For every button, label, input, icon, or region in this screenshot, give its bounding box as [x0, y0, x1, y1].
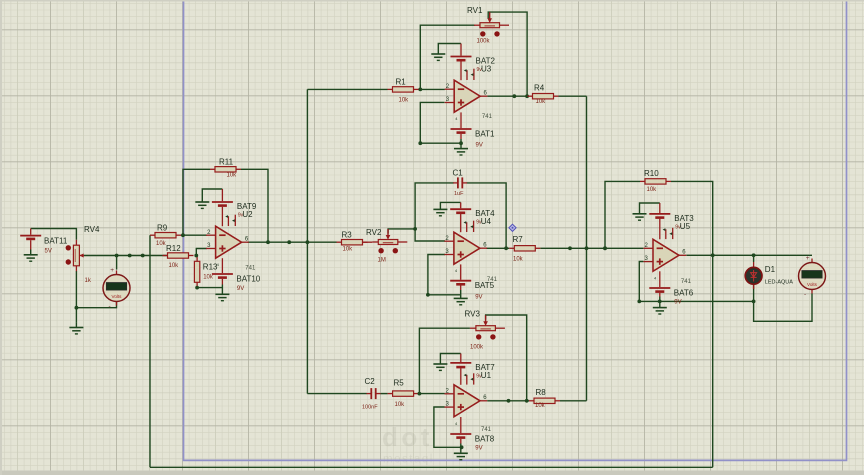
svg-text:10k: 10k: [227, 173, 238, 179]
capacitor C1: [453, 169, 468, 197]
svg-text:U1: U1: [481, 371, 492, 380]
ground: [433, 209, 447, 215]
svg-text:R11: R11: [219, 158, 234, 167]
resistor R3: [337, 230, 368, 252]
svg-text:U5: U5: [680, 222, 691, 231]
RV3 buttons: [476, 334, 481, 339]
svg-text:9V: 9V: [476, 143, 483, 149]
wire: [183, 169, 210, 235]
battery BAT2: [451, 57, 472, 61]
wire: [754, 284, 812, 321]
wire: [488, 12, 527, 96]
ground BAT1: [454, 149, 468, 155]
battery BAT4 wiring: [460, 202, 462, 208]
svg-text:mostaql: mostaql: [383, 454, 434, 466]
ground U5 top: [640, 203, 660, 214]
junction: [413, 227, 417, 231]
wire: [388, 229, 415, 234]
battery BAT8 wiring: [460, 417, 462, 433]
battery BAT2 wiring: [460, 44, 462, 56]
wire: [221, 285, 223, 295]
wire: [434, 407, 461, 447]
svg-text:C2: C2: [365, 377, 376, 386]
svg-text:10k: 10k: [513, 257, 524, 263]
junction: [752, 300, 756, 304]
svg-text:U4: U4: [481, 217, 492, 226]
battery BAT1 wiring: [460, 112, 462, 128]
svg-text:Volts: Volts: [807, 282, 818, 287]
svg-text:10k: 10k: [169, 263, 180, 269]
wire: [586, 96, 588, 401]
wire: [150, 466, 713, 468]
wire: [420, 25, 475, 89]
svg-text:10k: 10k: [203, 275, 214, 281]
junction: [194, 254, 198, 258]
junction: [115, 254, 119, 258]
wire: [197, 287, 222, 289]
svg-text:D1: D1: [765, 265, 776, 274]
battery BAT10: [212, 274, 233, 278]
wire: [487, 95, 527, 97]
battery BAT4: [450, 209, 471, 213]
svg-text:10k: 10k: [395, 402, 406, 408]
junction: [306, 240, 310, 244]
svg-text:100k: 100k: [477, 39, 491, 45]
junction: [512, 94, 516, 98]
battery BAT7 wiring: [460, 354, 462, 363]
ground U3 top: [438, 44, 461, 55]
wire: [540, 247, 643, 249]
svg-text:BAT6: BAT6: [674, 289, 694, 298]
svg-text:RV3: RV3: [465, 310, 481, 319]
ground U2 top: [202, 189, 222, 202]
svg-text:1uF: 1uF: [454, 191, 464, 197]
svg-text:U2: U2: [242, 210, 253, 219]
potentiometer RV3: [465, 310, 505, 351]
wire: [420, 102, 461, 143]
junction: [637, 300, 641, 304]
svg-text:10k: 10k: [647, 187, 658, 193]
resistor R1: [388, 78, 419, 104]
svg-text:R1: R1: [396, 78, 407, 87]
wire: [248, 241, 337, 243]
junction: [418, 88, 422, 92]
wire: [753, 255, 755, 262]
voltmeter left Volts: [103, 267, 130, 310]
wire: [639, 262, 643, 302]
wire: [241, 169, 268, 242]
svg-text:R9: R9: [157, 224, 168, 233]
junction: [603, 246, 607, 250]
wire: [460, 290, 462, 298]
svg-text:9V: 9V: [237, 286, 244, 292]
svg-text:9V: 9V: [475, 446, 482, 452]
capacitor C2: [362, 377, 381, 410]
potentiometer RV2: [366, 228, 407, 264]
svg-text:100nF: 100nF: [362, 405, 378, 411]
svg-text:R4: R4: [534, 83, 545, 92]
battery BAT11: [20, 229, 68, 255]
wire: [686, 254, 812, 256]
wire: [460, 447, 462, 453]
svg-text:741: 741: [482, 114, 493, 120]
svg-text:10k: 10k: [536, 99, 547, 105]
wire: [381, 393, 388, 395]
svg-text:9V: 9V: [674, 300, 681, 306]
svg-text:LED-AQUA: LED-AQUA: [765, 280, 793, 286]
junction: [658, 300, 662, 304]
svg-text:RV1: RV1: [467, 6, 483, 15]
ground: [431, 54, 445, 60]
junction: [711, 253, 715, 257]
RV4 buttons: [66, 245, 71, 250]
bottom band: [0, 471, 864, 475]
wire: [149, 235, 151, 467]
junction: [418, 141, 422, 145]
ground U1 top: [440, 354, 460, 365]
wire: [307, 88, 387, 90]
svg-text:R5: R5: [394, 378, 405, 387]
junction: [459, 141, 463, 145]
svg-text:C1: C1: [453, 169, 464, 178]
wire: [605, 181, 640, 248]
wire: [460, 139, 462, 149]
resistor R5: [388, 378, 419, 408]
battery BAT3 wiring: [659, 203, 661, 213]
wire: [83, 255, 166, 257]
battery BAT10 wiring: [221, 258, 223, 273]
wire: [659, 297, 661, 302]
svg-text:741: 741: [681, 279, 692, 285]
svg-text:5V: 5V: [45, 249, 52, 255]
junction: [507, 399, 511, 403]
ground BAT5: [454, 298, 468, 304]
svg-text:741: 741: [245, 266, 256, 272]
battery BAT6: [649, 288, 670, 292]
wire: [487, 400, 529, 402]
ground BAT6: [653, 308, 667, 314]
svg-text:1M: 1M: [378, 258, 386, 264]
resistor R7: [509, 235, 540, 263]
resistor R10: [640, 169, 671, 193]
svg-text:dοt: dοt: [382, 422, 433, 452]
junction: [141, 254, 145, 258]
svg-text:Volts: Volts: [112, 294, 123, 299]
wire: [428, 255, 461, 295]
svg-text:RV2: RV2: [366, 228, 382, 237]
op-amp U3: [445, 69, 488, 122]
wire: [460, 444, 462, 448]
ground: [633, 214, 647, 220]
svg-text:-: -: [804, 291, 806, 298]
sheet border: [184, 0, 847, 460]
watermark: [382, 422, 434, 466]
svg-text:741: 741: [481, 427, 492, 433]
junction: [128, 254, 132, 258]
wire: [419, 328, 470, 393]
wire: [181, 234, 207, 236]
svg-text:R10: R10: [644, 169, 659, 178]
origin marker: [509, 224, 516, 231]
battery BAT1: [451, 129, 472, 133]
wire: [639, 300, 753, 302]
voltmeter right Volts: [799, 255, 826, 298]
wire: [419, 88, 445, 90]
junction: [752, 253, 756, 257]
svg-text:R8: R8: [536, 388, 547, 397]
junction: [568, 246, 572, 250]
junction: [287, 240, 291, 244]
resistor R4: [528, 83, 559, 104]
wire: [559, 95, 587, 97]
op-amp U2: [206, 215, 249, 268]
ground BAT8: [454, 453, 468, 459]
RV2 buttons: [378, 248, 383, 253]
battery BAT5: [450, 281, 471, 285]
resistor R9: [150, 224, 181, 248]
battery BAT9: [212, 202, 233, 206]
wire: [75, 271, 77, 323]
wire: [415, 183, 454, 241]
wire: [560, 400, 587, 402]
junction: [504, 246, 508, 250]
LED D1: [745, 262, 793, 289]
ground U4 top: [440, 202, 460, 209]
svg-text:R7: R7: [513, 235, 524, 244]
battery BAT6 wiring: [659, 271, 661, 287]
wire: [467, 183, 507, 248]
wire: [307, 393, 366, 395]
wire: [76, 301, 116, 308]
svg-text:R12: R12: [166, 244, 181, 253]
junction: [525, 399, 529, 403]
svg-text:10k: 10k: [399, 98, 410, 104]
op-amp U4: [444, 221, 487, 274]
battery BAT5 wiring: [460, 264, 462, 279]
wire: [75, 323, 77, 328]
wire R3 to RV2: [363, 241, 373, 243]
ground RV4: [69, 328, 83, 334]
ground: [195, 202, 209, 208]
wire: [486, 247, 509, 249]
svg-text:U3: U3: [481, 65, 492, 74]
op-amp U5: [644, 228, 687, 280]
wire: [166, 255, 168, 257]
svg-text:+: +: [806, 255, 810, 262]
RV1 buttons: [480, 31, 485, 36]
ground: [433, 364, 447, 370]
junction: [418, 392, 422, 396]
wire: [196, 249, 206, 256]
potentiometer RV1: [467, 6, 509, 45]
svg-text:BAT8: BAT8: [475, 435, 495, 444]
wire: [671, 181, 713, 467]
svg-text:BAT1: BAT1: [475, 130, 495, 139]
ground BAT10: [215, 294, 229, 300]
potentiometer RV4: [66, 225, 100, 284]
wire: [116, 256, 118, 270]
svg-text:10k: 10k: [535, 403, 546, 409]
svg-text:100k: 100k: [470, 345, 484, 351]
svg-text:BAT10: BAT10: [236, 275, 260, 284]
wire: [30, 250, 32, 255]
junction: [603, 246, 607, 250]
junction: [195, 286, 199, 290]
op-amp U1: [445, 373, 488, 426]
junction: [460, 445, 464, 449]
junction: [266, 240, 270, 244]
svg-text:+: +: [110, 267, 114, 274]
ground BAT11: [24, 255, 38, 261]
wire: [31, 229, 77, 240]
junction: [75, 306, 79, 310]
svg-text:9V: 9V: [475, 295, 482, 301]
resistor R11: [210, 158, 241, 179]
resistor R13: [194, 256, 218, 287]
svg-text:10k: 10k: [343, 247, 354, 253]
resistor R12: [163, 244, 194, 269]
svg-text:-: -: [109, 303, 111, 310]
wire: [486, 315, 527, 401]
wire: [419, 393, 445, 395]
junction: [181, 233, 185, 237]
junction: [426, 293, 430, 297]
battery BAT9 wiring: [221, 189, 223, 201]
battery BAT7: [450, 363, 471, 367]
resistor R8: [529, 388, 560, 409]
wire: [659, 301, 661, 307]
svg-text:R3: R3: [342, 230, 353, 239]
battery BAT8: [450, 434, 471, 438]
svg-text:BAT11: BAT11: [44, 237, 68, 246]
svg-text:RV4: RV4: [84, 225, 100, 234]
wire: [306, 89, 308, 393]
battery BAT3: [649, 214, 670, 218]
junction: [525, 94, 529, 98]
svg-text:1k: 1k: [85, 278, 92, 284]
junction: [585, 246, 589, 250]
svg-text:BAT5: BAT5: [475, 281, 495, 290]
